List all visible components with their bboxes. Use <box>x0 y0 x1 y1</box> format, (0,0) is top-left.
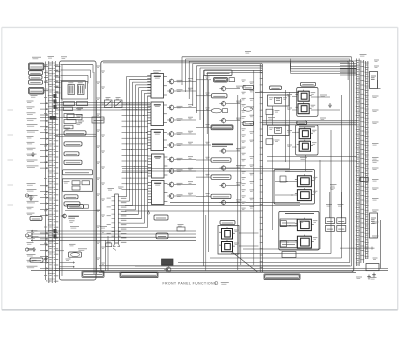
transistor Q160 <box>164 266 171 272</box>
relay K4 lower <box>295 188 318 200</box>
relay K4 upper <box>295 174 318 186</box>
wire A10 row <box>65 210 100 212</box>
relay group K3 outline <box>296 125 319 155</box>
relay K2 upper <box>296 90 316 102</box>
small box right of F1 <box>229 78 235 82</box>
nested loop wires right side <box>135 57 352 266</box>
dark label box left <box>50 116 56 119</box>
box A4 <box>64 152 79 156</box>
far right wire <box>378 80 381 269</box>
transistor Q <box>167 168 174 174</box>
IC U140 <box>148 154 168 178</box>
wire bundle vertical <box>121 77 151 228</box>
function box F2 <box>212 94 228 98</box>
small box on strips <box>360 177 368 181</box>
wires K6 to strip <box>239 233 259 246</box>
label above K2 <box>301 82 316 86</box>
switch S5 BEAM FIND <box>29 88 45 95</box>
small box right of A10 <box>84 205 89 208</box>
resistor boxes right-center <box>326 185 346 232</box>
diagonal wire <box>232 252 258 272</box>
transistor in A <box>61 213 67 218</box>
oval lamp DS1 <box>66 249 88 261</box>
label FRONT PANEL header <box>32 57 41 59</box>
ground <box>31 152 35 157</box>
transistor Q <box>167 131 174 137</box>
label K6 <box>220 221 235 225</box>
trimmer R101 R102 <box>105 98 123 108</box>
wires in block A <box>31 102 196 268</box>
IC U130 <box>147 130 167 151</box>
small box in K5 a <box>280 221 286 227</box>
rounded box B2 <box>156 233 168 239</box>
pot R31 <box>30 258 43 262</box>
bundle line 3 drop <box>347 61 349 80</box>
relay block K6 outline <box>218 226 239 255</box>
ground <box>29 196 33 201</box>
relay group K2 outline <box>297 88 318 117</box>
relay K6 upper <box>219 227 239 239</box>
connector J103 <box>260 64 263 272</box>
oval coil <box>211 109 227 113</box>
wires below IC column <box>125 202 300 214</box>
box A3 <box>64 142 82 146</box>
small box W2 <box>266 109 280 115</box>
vertical bus in block A <box>62 65 97 276</box>
box A5 <box>64 160 82 164</box>
relay K3 lower <box>297 140 317 152</box>
block A text rows <box>65 109 83 130</box>
right tall box <box>370 72 378 89</box>
relay K2 lower <box>296 102 316 114</box>
pin stubs on block A left edge <box>55 65 60 93</box>
caption FRONT PANEL FUNCTIONS <box>163 281 229 285</box>
ground right2 <box>367 275 371 280</box>
label above J103 top <box>245 51 251 53</box>
circled node numbers left <box>25 194 32 251</box>
small boxes right-center y215-260 <box>280 219 305 258</box>
transistor Q <box>167 104 174 110</box>
title box assembly C <box>264 274 300 280</box>
connector P1 <box>356 59 360 267</box>
IC U150 <box>148 181 168 205</box>
IC U120 <box>147 102 167 126</box>
switch S1 POWER <box>29 63 45 70</box>
label left of J103 a <box>243 85 254 89</box>
wide box A6 <box>63 170 93 175</box>
svg-text:FRONT PANEL FUNCTIONS: FRONT PANEL FUNCTIONS <box>163 281 218 285</box>
text rows block A lower <box>69 221 76 246</box>
dark box B3 <box>162 259 174 265</box>
block edge pin labels <box>97 66 105 265</box>
labels above right tall box <box>374 60 379 68</box>
label under S5 <box>31 95 38 97</box>
center tiny annotations <box>196 77 254 208</box>
misc parts block A y112-130 <box>64 114 84 129</box>
label on K4 outline <box>285 170 313 172</box>
small box W4 <box>266 139 280 145</box>
small box x177 <box>177 225 185 232</box>
switch S3 <box>29 76 42 80</box>
transistor Q <box>167 117 174 123</box>
bottom right labels <box>370 258 378 279</box>
wire bus from switches <box>44 62 48 281</box>
far left faint margin text <box>8 110 14 205</box>
transistor Q <box>167 156 174 162</box>
relay K5 upper <box>295 218 318 231</box>
box below IC column <box>154 215 168 220</box>
wire row above W1 <box>255 92 299 94</box>
wires y134-136 <box>55 134 96 136</box>
IC U110 <box>147 74 167 99</box>
transistor Q2xx <box>219 101 225 107</box>
component cluster box A1 <box>61 82 87 100</box>
ground <box>32 247 36 252</box>
function box F1 <box>214 78 228 83</box>
connector P3 <box>365 61 369 259</box>
function box W3 <box>268 125 290 135</box>
relay K6 lower <box>219 240 239 252</box>
small box in K4 <box>280 176 286 182</box>
transistor Q2xx <box>219 148 225 154</box>
transistor Q <box>167 142 174 148</box>
label on K3 outline <box>299 126 315 128</box>
function box F4 <box>211 158 231 162</box>
attenuator block K4 outline <box>274 170 315 205</box>
ground lamp <box>44 257 48 262</box>
title box assembly A <box>82 271 104 277</box>
wires lower-left block B <box>106 236 109 271</box>
bottom long wires <box>31 266 388 273</box>
box A2b <box>67 114 82 120</box>
relay K3 upper <box>297 127 317 139</box>
left margin signal labels <box>27 101 48 269</box>
relay driver box <box>64 131 86 135</box>
wide label box top center <box>204 70 232 76</box>
components right of K2 column <box>311 95 340 120</box>
attenuator block K5 outline <box>279 211 319 250</box>
wire y117.5 <box>40 117 101 119</box>
wires from ICs rightward <box>174 79 196 196</box>
inter-relay vertical wires <box>267 90 306 230</box>
bundle crossing stubs <box>122 104 149 191</box>
switch S4 <box>29 80 43 84</box>
bundle strip-to-right wires <box>291 59 357 74</box>
transistor Q <box>167 78 174 84</box>
pot R30 <box>30 217 42 221</box>
transistor Q2xx <box>219 118 225 124</box>
relay K5 lower <box>295 235 318 248</box>
ground right <box>372 273 376 278</box>
box A8 <box>64 195 78 199</box>
label above IC column <box>153 71 161 73</box>
block A front-panel interface outline <box>60 61 97 280</box>
switch S2 <box>29 71 43 75</box>
right tall box 2 <box>370 213 378 238</box>
bus wires mid right <box>122 118 357 172</box>
connector box bottom right <box>366 264 379 271</box>
transistor Q2xx <box>219 200 225 206</box>
block A header text <box>61 56 67 58</box>
function box F5 <box>211 175 231 179</box>
box A10 <box>68 205 84 209</box>
transistor Q <box>167 193 174 199</box>
wire under top edge <box>103 62 349 64</box>
title box assembly B <box>120 272 158 278</box>
wire loop nest in block A <box>61 65 94 89</box>
wires in K5 block <box>280 225 297 243</box>
wires in K4 block <box>275 181 297 196</box>
right margin labels <box>372 96 379 238</box>
connector J101 pin labels <box>44 57 58 284</box>
main board outline <box>101 61 354 272</box>
transistor Q2xx <box>219 165 225 171</box>
label left of J103 b <box>243 121 254 125</box>
box A2c <box>92 117 104 123</box>
box A9 <box>64 202 80 206</box>
top wire bundle <box>182 57 352 134</box>
label above K3 <box>297 121 307 124</box>
small boxes in block A <box>64 102 88 111</box>
function box W1 <box>268 95 290 106</box>
oval label left of J103 <box>243 107 252 111</box>
dark text row <box>212 144 233 146</box>
svg-text:T-||: T-|| <box>46 279 50 283</box>
dark text bulb <box>61 213 79 218</box>
connector J102 <box>107 187 127 251</box>
ground k2 <box>328 103 332 108</box>
connector J101 <box>48 61 53 283</box>
wires into right strips <box>340 61 357 75</box>
small box block B lower left <box>106 243 112 247</box>
label below right connector <box>356 276 362 278</box>
label right strip header <box>360 54 367 56</box>
vertical bus center <box>204 70 254 271</box>
bottom right wire y248 <box>340 247 375 250</box>
transistor Q <box>167 88 174 94</box>
transistor Q2xx <box>219 86 225 92</box>
transistor Q <box>167 181 174 187</box>
center small stub labels <box>242 80 246 210</box>
gate box A7 with inner boxes <box>63 179 93 192</box>
function box F6 <box>211 194 231 198</box>
connector P2 <box>360 60 364 263</box>
label above K1 <box>270 86 282 90</box>
small box in K5 b <box>280 241 286 247</box>
transistor Q2xx <box>219 183 225 189</box>
label on K5 outline <box>285 213 314 215</box>
function box F3 wide <box>211 125 233 130</box>
